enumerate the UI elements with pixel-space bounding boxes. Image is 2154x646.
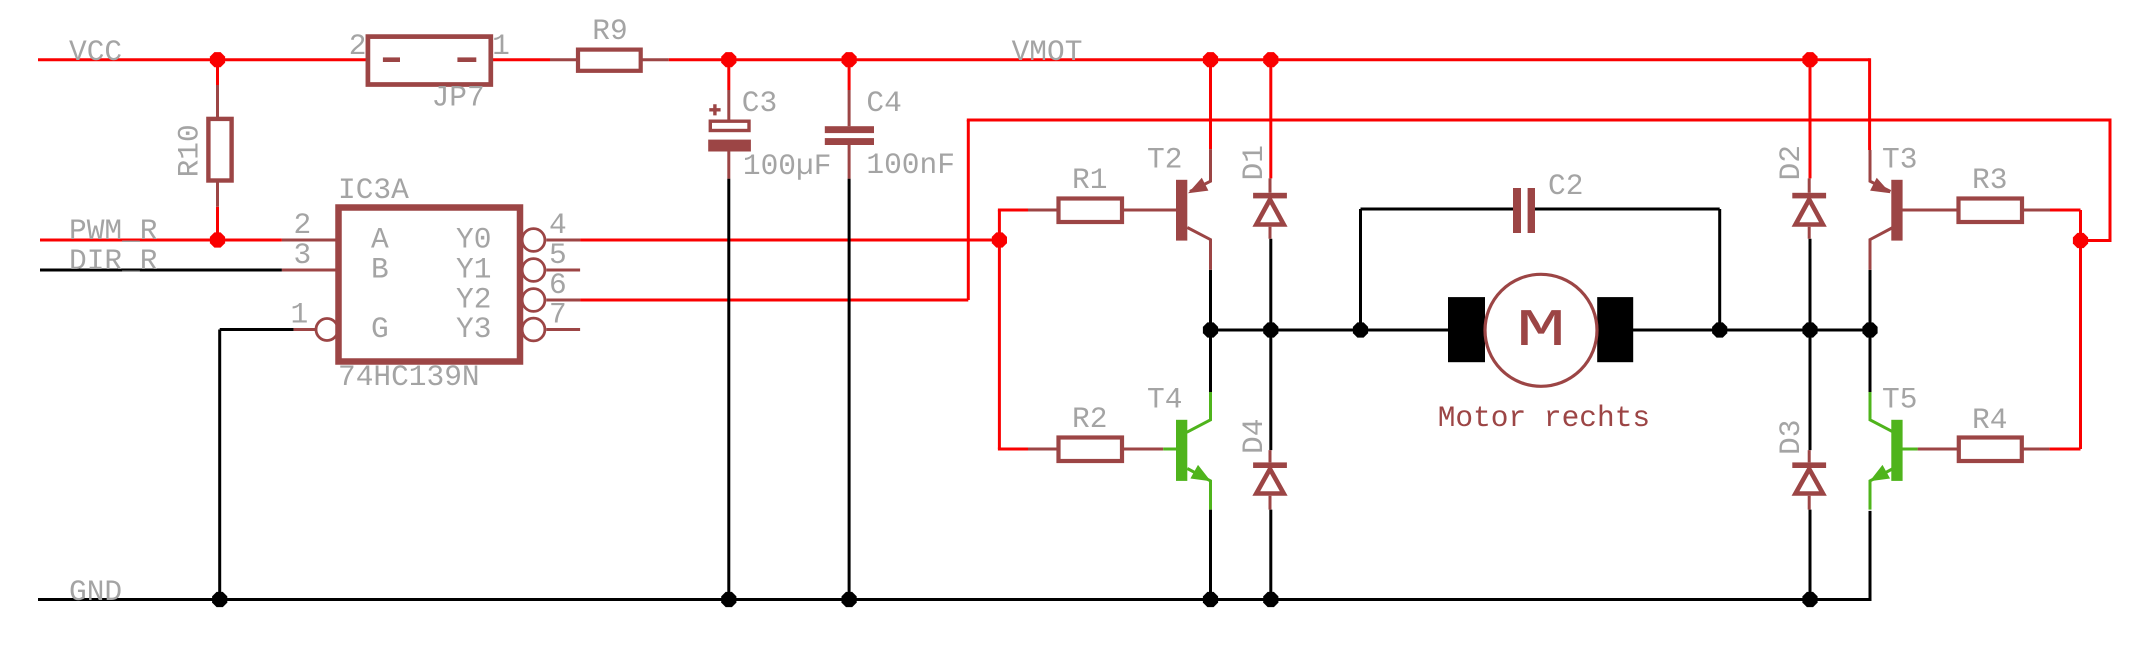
- node GND/C4 junction: [842, 592, 857, 607]
- wire C2 left branch horizontal: [1361, 208, 1514, 211]
- wire VMOT to C3 top: [727, 60, 730, 90]
- wire T3 collector to motor node: [1869, 270, 1872, 330]
- svg-text:R10: R10: [172, 124, 206, 177]
- diode D1 cathode bar: [1253, 193, 1287, 199]
- wire Y0 pin4 to junction: [580, 239, 999, 242]
- transistor T2 base bar: [1176, 180, 1187, 241]
- diode D4 anode triangle: [1256, 469, 1283, 494]
- resistor R1 body: [1059, 199, 1123, 223]
- wire D4 cathode from motor node: [1269, 330, 1272, 450]
- svg-text:R1: R1: [1072, 163, 1107, 197]
- ic IC3A pin 5 stub: [546, 269, 580, 272]
- transistor T2 collector pin: [1187, 228, 1210, 270]
- node VMOT/C4 junction: [842, 52, 857, 67]
- wire T4 emitter to GND: [1209, 510, 1212, 600]
- capacitor C3 bottom plate (filled): [708, 140, 751, 152]
- svg-text:1: 1: [291, 298, 309, 332]
- capacitor C3 top plate (outlined): [710, 121, 749, 130]
- wire DIR_R net: [40, 269, 282, 272]
- node GND/G-pin junction: [212, 592, 227, 607]
- capacitor C3 pin stubs: [727, 90, 730, 179]
- svg-text:VMOT: VMOT: [1012, 35, 1083, 69]
- transistor T5 collector pin (green): [1870, 392, 1894, 432]
- wire D1 anode to motor node: [1269, 239, 1272, 330]
- transistor T4 base pin (green): [1163, 448, 1176, 451]
- wire C2 right branch vertical: [1718, 209, 1721, 330]
- wire D2 anode to motor node: [1809, 239, 1812, 330]
- resistor R3 body: [1959, 199, 2023, 223]
- svg-text:3: 3: [294, 238, 312, 272]
- ic IC3A pin 4 bubble: [522, 229, 545, 252]
- transistor T2 emitter arrow: [1188, 178, 1208, 194]
- transistor T5 emitter pin (green): [1870, 469, 1893, 510]
- svg-text:PWM_R: PWM_R: [69, 214, 158, 248]
- transistor T4 collector pin (green): [1187, 392, 1211, 432]
- diode D4 pin stubs: [1269, 450, 1272, 510]
- svg-text:DIR_R: DIR_R: [69, 244, 158, 278]
- svg-text:G: G: [371, 312, 389, 346]
- svg-text:T4: T4: [1147, 383, 1182, 417]
- motor M1 body circle: [1485, 274, 1597, 386]
- transistor T5 emitter arrow (green): [1870, 465, 1890, 481]
- wire VCC rail left segment: [38, 58, 368, 61]
- wire GND corner up to T5 emitter: [1869, 511, 1872, 601]
- wire motor node row: [1211, 329, 1871, 332]
- wire Y2 vertical up: [967, 120, 970, 300]
- node motor/D2/D3 junction: [1802, 322, 1817, 337]
- svg-text:Motor rechts: Motor rechts: [1438, 401, 1650, 435]
- svg-text:R4: R4: [1972, 403, 2007, 437]
- svg-text:JP7: JP7: [432, 81, 485, 115]
- node PWM_R/R10 junction: [210, 232, 225, 247]
- wire C4 bottom to GND: [848, 179, 851, 600]
- diode D2 anode triangle: [1796, 200, 1823, 225]
- capacitor C2 right plate: [1528, 188, 1535, 233]
- svg-text:B: B: [371, 253, 389, 287]
- wire Y0 to R1 left: [998, 209, 1028, 212]
- node motor/C2-left junction: [1353, 322, 1368, 337]
- wire VMOT to D2 cathode: [1809, 60, 1812, 179]
- wire C2 right branch horizontal: [1535, 208, 1720, 211]
- wire T5 collector from motor node: [1869, 330, 1872, 392]
- svg-text:2: 2: [294, 208, 312, 242]
- wire Y2 pin6 horizontal: [580, 299, 968, 302]
- resistor R3 pin stubs: [1902, 209, 2050, 212]
- node GND/T4 junction: [1203, 592, 1218, 607]
- wire Y2 corner to junction: [2081, 239, 2112, 242]
- svg-text:D1: D1: [1237, 145, 1271, 180]
- resistor R2 pin stubs: [1028, 448, 1163, 451]
- motor M1 right brush: [1597, 297, 1633, 362]
- diode D2 pin stubs: [1808, 178, 1811, 238]
- node Y0/R1/R2 junction: [992, 232, 1007, 247]
- wire PWM_R net: [40, 239, 282, 242]
- svg-text:C3: C3: [742, 86, 777, 120]
- resistor R1 pin stubs: [1028, 209, 1176, 212]
- node VMOT/D1 junction: [1263, 52, 1278, 67]
- wire VMOT rail (R9 to right corner): [669, 58, 1870, 61]
- diode D3 cathode bar: [1792, 462, 1826, 468]
- svg-text:Y1: Y1: [456, 253, 491, 287]
- wire C3 bottom to GND: [727, 179, 730, 600]
- wire junction to R4 right: [2049, 448, 2080, 451]
- ic IC3A pin 5 bubble: [522, 259, 545, 282]
- svg-text:VCC: VCC: [69, 35, 122, 69]
- ic IC3A pin 2 stub: [282, 239, 339, 242]
- wire JP7 pin1 to R9: [491, 58, 550, 61]
- wire G net vertical to GND: [218, 330, 221, 600]
- svg-text:R2: R2: [1072, 402, 1107, 436]
- svg-text:C2: C2: [1548, 169, 1583, 203]
- svg-text:1: 1: [492, 29, 510, 63]
- capacitor C4 bottom plate: [825, 138, 874, 145]
- svg-text:A: A: [371, 223, 389, 257]
- wire VMOT to C4 top: [848, 60, 851, 90]
- wire D4 anode to GND: [1269, 510, 1272, 600]
- svg-text:Y0: Y0: [456, 223, 491, 257]
- wire T2 collector to motor node: [1209, 270, 1212, 330]
- diode D3 anode triangle: [1796, 469, 1823, 494]
- resistor R10 pin stubs: [216, 85, 219, 207]
- wire Y0 to R2 left: [998, 448, 1028, 451]
- jumper JP7 pin dash right: [457, 57, 476, 62]
- ic IC3A pin 6 bubble: [522, 289, 545, 312]
- svg-text:T2: T2: [1147, 143, 1182, 177]
- svg-text:T3: T3: [1882, 143, 1917, 177]
- wire R10 bottom to PWM_R: [216, 207, 219, 240]
- wire IC pin1 G net horizontal: [220, 328, 294, 331]
- wire GND rail: [38, 598, 1870, 601]
- svg-text:100µF: 100µF: [743, 149, 832, 183]
- node VCC/R10 junction: [210, 52, 225, 67]
- svg-text:D4: D4: [1237, 419, 1271, 454]
- ic IC3A pin 7 stub: [546, 328, 580, 331]
- wire Y2 bus right corner down: [2109, 119, 2112, 241]
- ic IC3A pin 7 bubble: [522, 318, 545, 341]
- node GND/C3 junction: [721, 592, 736, 607]
- diode D2 cathode bar: [1792, 193, 1826, 199]
- svg-text:D3: D3: [1774, 420, 1808, 455]
- wire Y2 long bus: [967, 119, 2110, 122]
- ic IC3A pin 1 stub: [294, 328, 316, 331]
- node GND/D4 junction: [1263, 592, 1278, 607]
- svg-text:Y3: Y3: [456, 312, 491, 346]
- motor M1 left brush: [1448, 297, 1485, 362]
- node VMOT/T2 junction: [1203, 52, 1218, 67]
- wire VMOT to T2 emitter: [1209, 60, 1212, 149]
- node motor/C2-right junction: [1712, 322, 1727, 337]
- svg-text:R3: R3: [1972, 163, 2007, 197]
- transistor T5 base pin (green): [1902, 448, 1918, 451]
- svg-text:100nF: 100nF: [866, 148, 955, 182]
- jumper JP7 pin dash left: [383, 57, 400, 62]
- diode D1 anode triangle: [1256, 200, 1283, 225]
- wire R3 corner down: [2079, 210, 2082, 449]
- resistor R9 body: [578, 50, 641, 71]
- capacitor C3 plus sign: [709, 104, 720, 115]
- wire VMOT corner down to T3 emitter: [1868, 58, 1871, 150]
- node motor/T3/T5 junction: [1862, 322, 1877, 337]
- wire Y0 vertical junction to R1/R2 rows: [998, 210, 1001, 449]
- resistor R2 body: [1059, 438, 1123, 462]
- capacitor C4 top plate: [825, 126, 874, 133]
- jumper JP7 body: [368, 37, 491, 85]
- wire VCC to R10 top: [216, 60, 219, 85]
- capacitor C2 left plate: [1513, 188, 1521, 233]
- ic IC3A pin 1 inversion bubble: [316, 319, 338, 341]
- resistor R4 body: [1959, 438, 2022, 462]
- node VMOT/D2 junction: [1802, 52, 1817, 67]
- svg-text:R9: R9: [592, 14, 627, 48]
- wire T4 collector from motor node: [1209, 330, 1212, 392]
- node motor/T2/T4 junction: [1203, 322, 1218, 337]
- wire D3 anode to GND: [1809, 510, 1812, 600]
- svg-text:5: 5: [549, 238, 567, 272]
- ic IC3A pin 3 stub: [282, 269, 339, 272]
- transistor T3 emitter pin: [1870, 150, 1891, 192]
- ic IC3A body: [339, 208, 521, 362]
- node VMOT/C3 junction: [721, 52, 736, 67]
- svg-text:IC3A: IC3A: [338, 173, 409, 207]
- transistor T3 collector pin: [1870, 228, 1893, 270]
- transistor T3 emitter arrow: [1870, 178, 1890, 194]
- transistor T4 emitter arrow (green): [1190, 465, 1210, 481]
- diode D4 cathode bar: [1253, 462, 1287, 468]
- node GND/D3 junction: [1802, 592, 1817, 607]
- wire D3 cathode from motor node: [1809, 330, 1812, 450]
- transistor T5 base bar (green): [1891, 420, 1902, 481]
- transistor T4 base bar (green): [1176, 420, 1187, 481]
- transistor T2 emitter pin: [1190, 149, 1211, 191]
- svg-text:D2: D2: [1774, 145, 1808, 180]
- resistor R4 pin stubs: [1918, 448, 2050, 451]
- diode D3 pin stubs: [1808, 450, 1811, 510]
- wire VMOT to D1 cathode: [1269, 60, 1272, 179]
- node motor/D1/D4 junction: [1263, 322, 1278, 337]
- svg-text:C4: C4: [866, 86, 901, 120]
- svg-text:M: M: [1516, 302, 1566, 362]
- capacitor C4 pin stubs: [848, 90, 851, 179]
- transistor T3 base bar: [1891, 180, 1902, 241]
- svg-text:74HC139N: 74HC139N: [338, 360, 480, 394]
- resistor R10 body: [208, 119, 231, 181]
- wire C2 left branch vertical: [1359, 209, 1362, 330]
- svg-text:4: 4: [549, 208, 567, 242]
- ic IC3A pin 4 stub: [546, 239, 580, 242]
- resistor R9 pin stubs: [550, 58, 669, 61]
- svg-text:T5: T5: [1882, 383, 1917, 417]
- svg-text:2: 2: [349, 29, 367, 63]
- ic IC3A pin 6 stub: [546, 299, 580, 302]
- wire R3 right to junction: [2050, 209, 2081, 212]
- node R3/R4/Y2 junction: [2073, 233, 2088, 248]
- diode D1 pin stubs: [1269, 178, 1272, 238]
- transistor T4 emitter pin (green): [1187, 469, 1210, 510]
- svg-text:GND: GND: [69, 575, 122, 609]
- svg-text:7: 7: [549, 298, 567, 332]
